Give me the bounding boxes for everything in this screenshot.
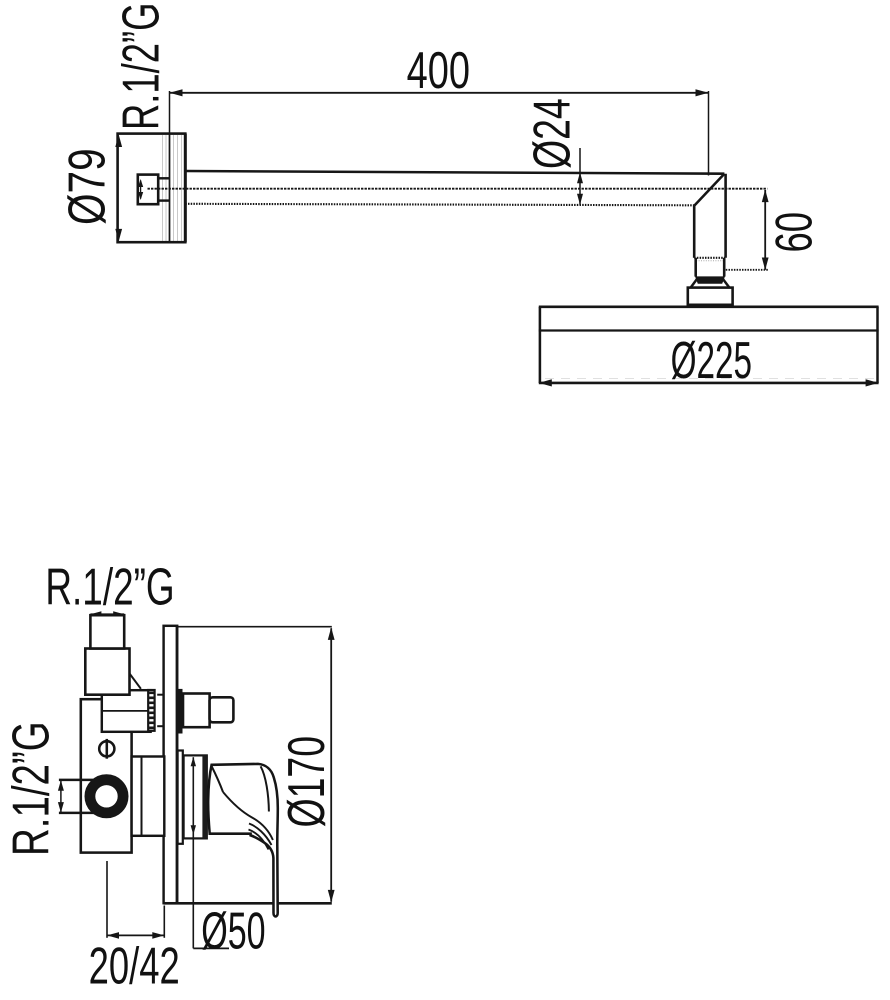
svg-text:20/42: 20/42 <box>89 936 180 995</box>
svg-text:Ø50: Ø50 <box>201 902 265 960</box>
svg-text:R.1/2”G: R.1/2”G <box>2 721 60 856</box>
svg-text:Ø225: Ø225 <box>671 332 752 390</box>
svg-text:60: 60 <box>764 212 823 252</box>
svg-text:Ø79: Ø79 <box>58 148 116 225</box>
svg-text:R.1/2”G: R.1/2”G <box>45 557 174 616</box>
svg-text:R.1/2”G: R.1/2”G <box>111 3 170 130</box>
svg-text:Ø170: Ø170 <box>277 736 336 828</box>
svg-text:Ø24: Ø24 <box>522 98 581 169</box>
svg-text:400: 400 <box>407 41 470 99</box>
